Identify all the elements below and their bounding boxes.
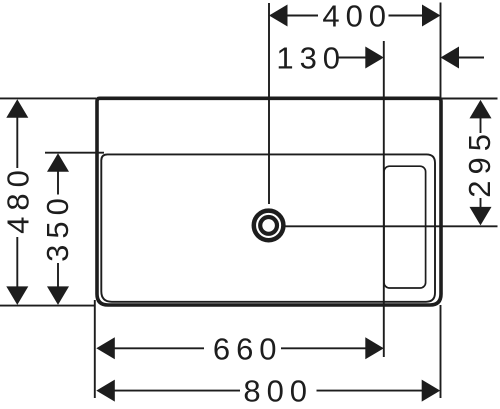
svg-text:480: 480	[0, 164, 35, 234]
svg-text:800: 800	[243, 374, 313, 409]
svg-text:660: 660	[213, 331, 283, 366]
svg-text:295: 295	[462, 128, 497, 198]
svg-text:400: 400	[322, 0, 392, 34]
svg-text:350: 350	[40, 192, 75, 262]
svg-text:130: 130	[276, 41, 346, 76]
